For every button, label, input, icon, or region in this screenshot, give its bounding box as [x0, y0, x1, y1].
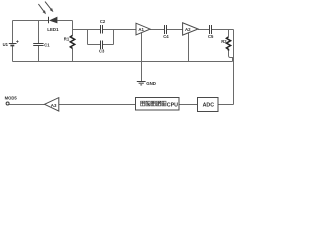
svg-text:ADC: ADC	[203, 103, 215, 109]
svg-text:LED1: LED1	[47, 27, 59, 32]
svg-text:C5: C5	[208, 34, 214, 39]
svg-text:R2: R2	[221, 39, 227, 44]
svg-text:A2: A2	[185, 27, 191, 32]
svg-text:C4: C4	[163, 34, 169, 39]
svg-text:MOD5: MOD5	[5, 96, 18, 101]
svg-text:GND: GND	[146, 81, 156, 86]
svg-text:C1: C1	[44, 43, 50, 48]
svg-text:A1: A1	[138, 27, 144, 32]
svg-text:A3: A3	[51, 103, 57, 108]
svg-text:C3: C3	[99, 49, 105, 54]
svg-text:R1: R1	[64, 37, 70, 42]
svg-text:C2: C2	[100, 19, 106, 24]
svg-text:CPU: CPU	[167, 102, 178, 108]
svg-text:U1: U1	[3, 42, 9, 47]
